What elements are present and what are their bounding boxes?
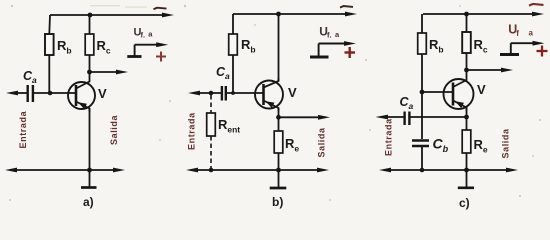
node rail junction b (276, 12, 281, 17)
svg-text:Salida: Salida (501, 128, 511, 159)
node collector c (464, 68, 469, 73)
wire base c (422, 91, 452, 93)
power supply terminal symbol c (500, 41, 545, 55)
wire output arrow a (90, 70, 129, 75)
node Rb-base junction b (231, 91, 235, 95)
wire output arrow c (467, 68, 514, 73)
capacitor Ca (a) (28, 85, 33, 102)
ground c (458, 170, 474, 188)
scan noise speckles (9, 5, 541, 201)
resistor Re (b) (274, 117, 283, 170)
svg-text:b): b) (272, 195, 283, 209)
minus sign (c) (529, 4, 544, 6)
resistor Rent (b) dashed leads (207, 95, 216, 170)
node Rent junction b (209, 91, 214, 96)
wire bottom rail b (double arrow) (186, 168, 329, 173)
transistor V (a) PNP (68, 72, 95, 112)
capacitor Ca (c) (405, 112, 410, 126)
resistor Rc (a) (85, 15, 94, 72)
ground b (270, 170, 287, 188)
wire output arrow b (279, 115, 331, 120)
svg-text:V: V (288, 85, 297, 100)
wire Ca to emitter c (crosses Rb line, no junction) (409, 116, 466, 118)
capacitor Ca (b) (222, 86, 226, 101)
node Re-rail junction c (464, 168, 469, 173)
power supply terminal symbol b (310, 41, 356, 57)
wire top rail b (233, 12, 357, 17)
plus sign (a) (156, 52, 166, 62)
node base junction a (48, 91, 53, 96)
node emitter-rail junction a (87, 168, 92, 173)
svg-text:a): a) (83, 195, 94, 209)
node Cb-rail junction c (420, 168, 425, 173)
wire input arrow c (376, 115, 405, 120)
resistor Rb (c) (418, 14, 427, 139)
plus sign (b) (345, 47, 356, 58)
wire bottom rail c (double arrow) (379, 168, 518, 173)
minus sign (b) (340, 6, 353, 8)
svg-text:Entrada: Entrada (384, 118, 394, 156)
node Re-rail junction b (276, 168, 281, 173)
svg-text:Salida: Salida (317, 127, 327, 158)
svg-text:Salida: Salida (109, 114, 119, 145)
wire top rail c (423, 12, 544, 17)
svg-text:c): c) (459, 196, 470, 210)
wire input arrow a (6, 91, 28, 96)
wire base b (226, 92, 263, 94)
node emitter junction b (276, 115, 281, 120)
resistor Rc (c) (462, 14, 471, 70)
node base junction c (420, 90, 425, 95)
svg-text:Entrada: Entrada (187, 112, 197, 150)
wire Cb to rail c (421, 146, 423, 170)
svg-text:V: V (98, 86, 107, 101)
node emitter junction c (464, 115, 469, 120)
wire collector b (278, 14, 280, 81)
resistor Rb (b) (229, 14, 238, 93)
plus sign (c) (537, 46, 548, 57)
ground a (81, 170, 97, 188)
wire base a (33, 92, 75, 94)
svg-text:Entrada: Entrada (18, 110, 28, 148)
wire bottom rail a (double arrow) (5, 168, 125, 173)
node rail junction c (464, 12, 469, 17)
capacitor Cb (c) (412, 141, 429, 147)
svg-text:V: V (477, 82, 486, 97)
transistor V (b) PNP (255, 78, 283, 111)
wire top rail a (negative supply rail) (50, 13, 174, 18)
node rail junction a (88, 13, 93, 18)
wire input arrow b (188, 91, 222, 96)
node Rent-rail junction b (209, 168, 214, 173)
wire emitter b (278, 108, 280, 117)
resistor Rb (a) (45, 15, 54, 93)
resistor Re (c) (462, 117, 471, 170)
transistor V (c) PNP (444, 70, 474, 111)
wire emitter c (466, 108, 468, 118)
wire emitter to ground rail a (89, 109, 91, 171)
minus sign (a) (154, 8, 167, 10)
power supply terminal symbol a (127, 42, 168, 56)
node collector a (87, 70, 92, 75)
